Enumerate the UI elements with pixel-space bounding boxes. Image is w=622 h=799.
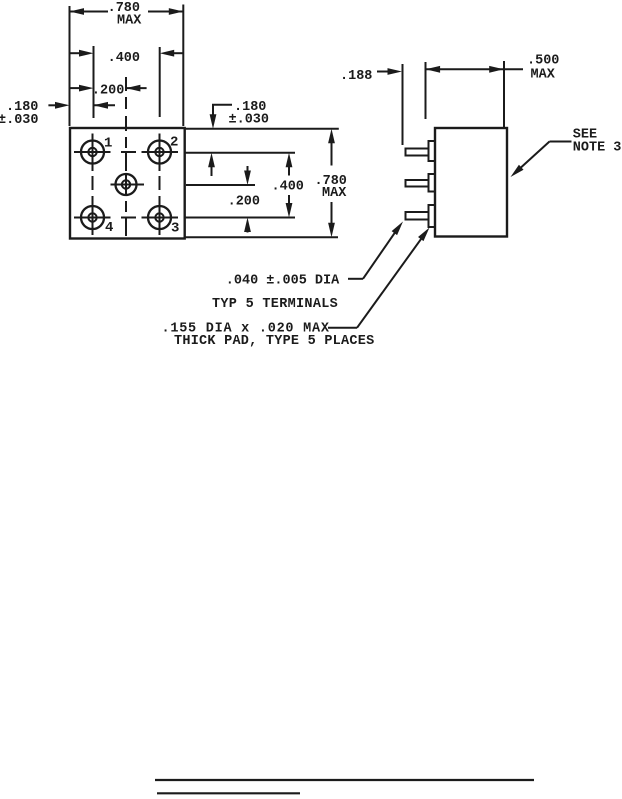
extension line right edge xyxy=(182,5,184,127)
dimension .780 MAX top xyxy=(70,1,184,29)
note SEE NOTE 3 with leader xyxy=(508,128,621,180)
svg-text:±.030: ±.030 xyxy=(229,113,270,128)
centerline center column xyxy=(125,77,127,236)
bottom edge extension to right xyxy=(185,236,338,238)
footer rule long xyxy=(155,779,534,781)
side view extension line stub xyxy=(425,62,427,119)
dimension .400 top xyxy=(70,50,184,66)
dimension .500 MAX xyxy=(426,53,560,82)
svg-text:MAX: MAX xyxy=(531,67,556,82)
dimension .200 middle xyxy=(228,166,260,233)
dimension .780 MAX right vertical xyxy=(315,129,348,237)
svg-text:2: 2 xyxy=(170,135,178,151)
terminal pin 3 xyxy=(406,212,429,220)
dimension .400 middle xyxy=(272,153,304,218)
callout .040 DIA with leader xyxy=(226,219,406,288)
terminal pin 1 xyxy=(406,149,429,156)
svg-text:.400: .400 xyxy=(272,180,304,195)
svg-text:.400: .400 xyxy=(108,51,140,66)
dimension .180 +/-.030 left xyxy=(0,100,115,128)
svg-text:MAX: MAX xyxy=(322,186,347,201)
top edge extension to right xyxy=(185,128,339,130)
callout .155 DIA pad with leader xyxy=(162,225,433,336)
side view extension line right edge xyxy=(503,61,505,127)
terminal stub 3 xyxy=(429,205,436,227)
side view body xyxy=(435,128,507,237)
hole 2 xyxy=(148,141,171,164)
svg-text:MAX: MAX xyxy=(117,14,142,29)
svg-text:4: 4 xyxy=(105,220,113,236)
svg-text:NOTE 3: NOTE 3 xyxy=(573,141,622,156)
svg-text:3: 3 xyxy=(171,221,179,237)
svg-text:.040 ±.005 DIA: .040 ±.005 DIA xyxy=(226,273,340,288)
centerline column 2/3 xyxy=(159,134,161,236)
svg-text:.500: .500 xyxy=(527,53,559,68)
extension line column 1/4 xyxy=(93,46,95,118)
row 4-3 extension to right xyxy=(185,217,295,219)
center hole xyxy=(116,174,137,195)
dimension .188 xyxy=(340,68,402,84)
svg-text:±.030: ±.030 xyxy=(0,113,39,128)
center row extension to right xyxy=(186,184,255,186)
terminal stub 2 xyxy=(429,174,436,192)
centerline center hole cross xyxy=(111,184,145,186)
svg-text:1: 1 xyxy=(104,136,112,152)
centerline column 1/4 xyxy=(92,134,94,236)
svg-text:.200: .200 xyxy=(228,194,260,209)
centerline row 1-2 xyxy=(74,151,178,153)
terminal pin 2 xyxy=(406,180,429,187)
dimension .180 +/-.030 middle xyxy=(208,100,269,176)
row 1-2 extension to right xyxy=(185,152,295,154)
hole 1 xyxy=(81,141,104,164)
footer rule short xyxy=(157,792,300,794)
svg-text:TYP 5 TERMINALS: TYP 5 TERMINALS xyxy=(212,297,338,312)
svg-text:.200: .200 xyxy=(92,84,124,99)
centerline row 4-3 xyxy=(74,217,178,219)
extension line left edge xyxy=(69,6,71,126)
hole 4 xyxy=(81,206,104,229)
svg-text:.188: .188 xyxy=(340,69,372,84)
dimension .200 top xyxy=(70,84,147,99)
front view package outline xyxy=(70,128,185,239)
hole 3 xyxy=(148,206,171,229)
side view extension line pin tip xyxy=(402,64,404,145)
svg-text:THICK PAD, TYPE 5 PLACES: THICK PAD, TYPE 5 PLACES xyxy=(174,334,374,349)
terminal stub 1 xyxy=(429,141,436,161)
extension line column 2/3 xyxy=(159,47,161,117)
